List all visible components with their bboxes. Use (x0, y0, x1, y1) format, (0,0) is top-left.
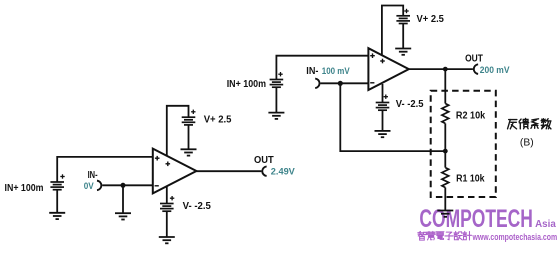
svg-text:COMPOTECH: COMPOTECH (419, 205, 533, 233)
probe OUT (right) (474, 64, 478, 74)
resistor R2 10k (442, 104, 449, 124)
svg-text:R2 10k: R2 10k (456, 110, 486, 121)
op-amp U1 (left) (153, 149, 197, 194)
ground (right V+) (395, 49, 411, 55)
wire op-amp U2 V- supply pin (382, 84, 384, 103)
battery V3 plus polarity mark (170, 196, 174, 200)
logo Asia (535, 219, 556, 230)
ground (left inverting input) (115, 213, 131, 219)
wire feedback from junction down and right to R1/R2 node (340, 83, 445, 151)
svg-text:IN-: IN- (306, 66, 318, 77)
wire R2 to feedback node (444, 123, 446, 151)
svg-text:V+ 2.5: V+ 2.5 (204, 115, 232, 126)
battery V2 V+ 2.5 (left) (182, 117, 196, 125)
op-amp U1 plus input mark (155, 156, 160, 161)
wire battery V1 to ground (56, 190, 58, 213)
battery V6 V- -2.5 (right) (376, 103, 390, 111)
ground (right V-) (375, 131, 391, 137)
svg-text:2.49V: 2.49V (271, 166, 296, 177)
op-amp U2 minus input mark (370, 82, 374, 84)
svg-text:0V: 0V (84, 180, 95, 191)
wire junction to ground (122, 185, 124, 213)
battery V1 plus polarity mark (60, 174, 64, 178)
svg-text:OUT: OUT (465, 53, 483, 64)
battery V6 plus polarity mark (384, 95, 388, 99)
ground (left V-) (159, 237, 175, 243)
wire battery V3 to ground (166, 211, 168, 237)
node OUT junction dot (right) (443, 67, 448, 72)
logo 智慧電子設計 (418, 231, 472, 240)
op-amp U2 inner plus mark (380, 59, 385, 64)
wire op-amp U2 output (409, 68, 473, 70)
wire OUT node down to R2 (444, 69, 446, 103)
logo url www.compotechasia.com (472, 232, 558, 242)
wire battery V2 to ground (188, 125, 190, 149)
svg-text:IN+ 100m: IN+ 100m (227, 79, 267, 90)
wire battery V4 top to op-amp U2 non-inverting input (276, 56, 368, 80)
battery V1 IN+ 100m source (50, 182, 64, 190)
ground (right source) (268, 113, 284, 119)
battery V5 V+ 2.5 (right) (396, 16, 410, 24)
battery V3 V- -2.5 (left) (160, 204, 174, 212)
wire R1 to ground (drawn over logo) (444, 188, 446, 211)
ground (feedback network R1) (437, 211, 453, 217)
resistor R1 10k (442, 168, 449, 188)
battery V4 plus polarity mark (278, 72, 282, 76)
ground (left V+) (181, 149, 197, 155)
wire op-amp U2 V+ supply pin (382, 6, 403, 58)
wire op-amp U1 V- supply pin (166, 183, 168, 204)
svg-text:Asia: Asia (535, 219, 556, 230)
svg-text:IN+ 100m: IN+ 100m (5, 183, 44, 194)
battery V5 plus polarity mark (404, 9, 408, 13)
svg-text:R1 10k: R1 10k (456, 173, 485, 184)
wire battery V4 to ground (275, 87, 277, 112)
wire probe to op-amp U1 inverting input (102, 184, 153, 186)
wire feedback node down to R1 (444, 151, 446, 168)
svg-text:200 mV: 200 mV (480, 64, 510, 75)
battery V4 IN+ 100m source (right) (270, 80, 284, 88)
node feedback junction dot (R1/R2) (443, 149, 448, 154)
ground (left source) (49, 213, 65, 219)
svg-text:OUT: OUT (254, 155, 274, 166)
op-amp U1 minus input mark (155, 185, 159, 187)
wire probe to op-amp U2 inverting input (320, 82, 368, 84)
dashed feedback network box (B) (431, 91, 496, 197)
op-amp U2 plus input mark (370, 53, 375, 58)
probe OUT (left) (262, 166, 266, 176)
svg-text:V+ 2.5: V+ 2.5 (417, 14, 445, 25)
battery V2 plus polarity mark (191, 110, 195, 114)
wire op-amp U1 V+ supply pin (167, 106, 189, 158)
logo COMPOTECH (419, 205, 533, 233)
probe IN- (right) (315, 79, 319, 89)
label 反馈系数 (feedback coefficient) (508, 118, 551, 128)
svg-text:V- -2.5: V- -2.5 (396, 99, 424, 110)
wire op-amp U1 output (196, 170, 261, 172)
probe IN- (left) (97, 181, 101, 191)
svg-text:V- -2.5: V- -2.5 (183, 201, 212, 212)
svg-text:(B): (B) (520, 138, 534, 149)
node B junction dot (right inverting input) (338, 81, 343, 86)
node A junction dot (left inverting input) (121, 183, 126, 188)
op-amp U2 (right) (368, 48, 408, 90)
op-amp U1 inner plus mark (166, 162, 171, 167)
wire battery V6 to ground (382, 110, 384, 131)
svg-text:www.compotechasia.com: www.compotechasia.com (472, 232, 558, 242)
wire battery V1 top to op-amp U1 non-inverting input (57, 157, 153, 182)
svg-text:100 mV: 100 mV (322, 65, 351, 76)
wire battery V5 to ground (402, 24, 404, 49)
